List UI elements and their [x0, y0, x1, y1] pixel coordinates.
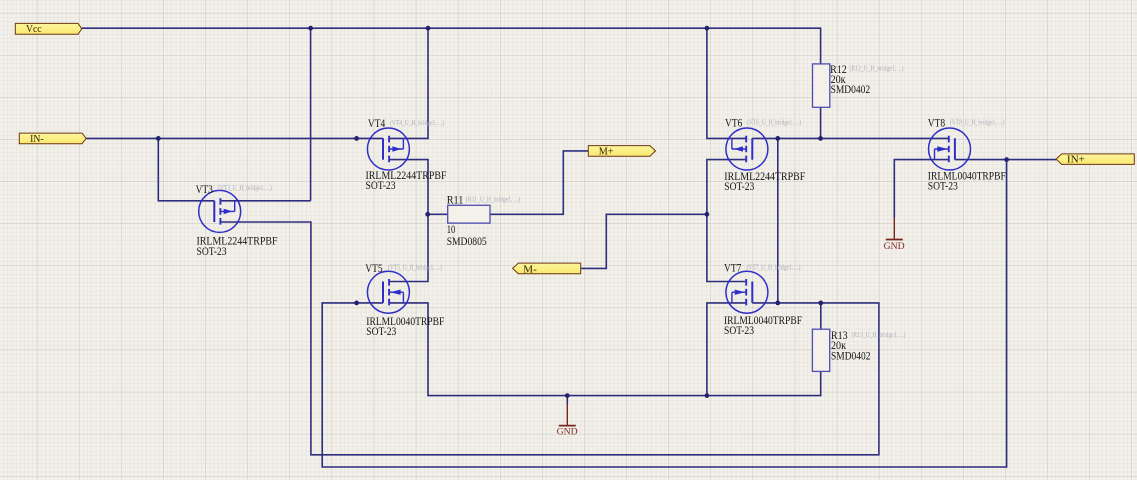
- label VT4 designator: [368, 116, 445, 130]
- svg-text:M-: M-: [523, 264, 537, 275]
- ground GND at VT8: [884, 218, 905, 253]
- svg-text:R11: R11: [447, 193, 464, 207]
- svg-text:GND: GND: [884, 242, 905, 252]
- svg-text:(VT6_U_H_bridge1, ...): (VT6_U_H_bridge1, ...): [747, 119, 802, 127]
- node GND rail VT7 junction: [705, 393, 710, 398]
- port Vcc: [15, 23, 82, 35]
- svg-text:(VT7_U_H_bridge1, ...): (VT7_U_H_bridge1, ...): [747, 264, 802, 272]
- resistor R13: [812, 329, 829, 371]
- svg-text:IN+: IN+: [1067, 154, 1085, 165]
- svg-text:SOT-23: SOT-23: [197, 244, 227, 258]
- svg-text:VT5: VT5: [365, 261, 382, 275]
- svg-text:VT6: VT6: [725, 116, 742, 130]
- svg-text:SOT-23: SOT-23: [724, 323, 754, 337]
- svg-text:VT3: VT3: [196, 182, 213, 196]
- wire Vcc rail with R12 top lead: [82, 28, 821, 64]
- wire Vcc drop to VT3 drain: [310, 28, 312, 201]
- svg-text:SMD0402: SMD0402: [831, 82, 871, 96]
- label VT3 part: [197, 234, 278, 258]
- wire R12 bottom lead: [820, 107, 822, 138]
- node M- junction: [705, 212, 710, 217]
- svg-text:Vcc: Vcc: [26, 24, 42, 35]
- wire VT3 drain stub: [220, 200, 310, 202]
- svg-text:IN-: IN-: [30, 134, 44, 145]
- node IN- at VT4 gate: [354, 136, 359, 141]
- transistor VT4: [367, 128, 409, 170]
- label VT3 designator: [196, 182, 273, 196]
- wire VT6 gate node to VT8 drain: [752, 137, 949, 139]
- node VT5 gate junction: [354, 301, 359, 306]
- label VT7 designator: [724, 261, 801, 275]
- wire VT8 source to GND: [894, 160, 949, 218]
- wire VT6 source to VT7 drain: [707, 160, 746, 282]
- svg-text:SOT-23: SOT-23: [366, 324, 396, 338]
- node gate net at x778 top: [775, 136, 780, 141]
- transistor VT3: [199, 190, 241, 232]
- svg-text:SOT-23: SOT-23: [928, 179, 958, 193]
- wire VT5 gate extension to bottom rail to VT8 gate node: [322, 160, 1006, 467]
- node IN- to VT3 branch: [156, 136, 161, 141]
- label VT5 designator: [365, 261, 442, 275]
- label R11: [447, 193, 521, 249]
- node Vcc-VT4 junction: [426, 26, 431, 31]
- label VT8 designator: [928, 116, 1005, 130]
- svg-text:VT4: VT4: [368, 116, 385, 130]
- wire R13 top lead: [820, 303, 822, 329]
- wire R11 right to M+ port: [490, 151, 588, 214]
- wire M- port to VT6 VT7 midpoint: [581, 214, 707, 268]
- svg-text:(VT3_U_H_bridge1, ...): (VT3_U_H_bridge1, ...): [218, 184, 273, 192]
- wire VT4 source to R11 node to VT5 drain: [389, 160, 428, 282]
- transistor VT6: [726, 128, 768, 170]
- svg-text:SMD0805: SMD0805: [447, 234, 487, 248]
- wire VT3 source to bottom rail to VT7 gate: [220, 222, 879, 455]
- svg-text:M+: M+: [599, 147, 614, 158]
- svg-text:SOT-23: SOT-23: [724, 179, 754, 193]
- svg-text:VT7: VT7: [724, 261, 741, 275]
- node R13 top junction: [818, 301, 823, 306]
- node R12 bottom junction: [818, 136, 823, 141]
- node VT8 gate IN+ junction: [1004, 157, 1009, 162]
- wire R11 left lead: [428, 213, 448, 215]
- port M+: [588, 146, 655, 158]
- wire Vcc drop to VT4 drain: [389, 28, 428, 138]
- label VT7 part: [724, 313, 802, 337]
- node gate net at x778 bottom: [775, 301, 780, 306]
- transistor VT5: [367, 271, 409, 313]
- port M-: [513, 263, 581, 275]
- svg-text:SOT-23: SOT-23: [366, 178, 396, 192]
- svg-text:VT8: VT8: [928, 116, 945, 130]
- wire IN- net to VT4 gate: [86, 137, 383, 139]
- label VT6 designator: [725, 116, 802, 130]
- node Vcc-VT3 junction: [308, 26, 313, 31]
- port IN-: [19, 133, 86, 145]
- wire GND stub center: [566, 396, 568, 404]
- ground GND center: [557, 404, 578, 438]
- svg-text:(R12_U_H_bridge1, ...): (R12_U_H_bridge1, ...): [850, 65, 905, 73]
- label VT4 part: [366, 168, 447, 192]
- wire Vcc drop to VT6 drain: [707, 28, 746, 138]
- port IN+: [1056, 154, 1134, 166]
- wire gate node vertical VT6 to VT7: [777, 138, 779, 303]
- wire VT7 source to GND rail: [707, 303, 746, 396]
- svg-text:(R11_U_H_bridge1, ...): (R11_U_H_bridge1, ...): [466, 195, 521, 203]
- transistor VT7: [726, 271, 768, 313]
- resistor R11: [448, 205, 490, 223]
- resistor R12: [813, 64, 830, 107]
- svg-text:SMD0402: SMD0402: [831, 349, 871, 363]
- node Vcc-VT6 junction: [705, 26, 710, 31]
- label R12: [830, 62, 904, 96]
- label VT8 part: [928, 169, 1006, 193]
- node GND rail center junction: [565, 393, 570, 398]
- svg-text:GND: GND: [557, 428, 578, 438]
- wire IN- branch to VT3 gate: [158, 138, 214, 200]
- label R13: [831, 328, 906, 363]
- svg-text:(VT8_U_H_bridge1, ...): (VT8_U_H_bridge1, ...): [950, 119, 1005, 127]
- wire VT8 gate to IN+ port: [955, 159, 1056, 161]
- svg-text:(R13_U_H_bridge1, ...): (R13_U_H_bridge1, ...): [852, 331, 907, 339]
- node R11 left junction: [425, 212, 430, 217]
- wire VT5 source to GND rail to R13 bottom: [389, 303, 821, 396]
- svg-text:(VT4_U_H_bridge1, ...): (VT4_U_H_bridge1, ...): [390, 119, 445, 127]
- transistor VT8: [929, 128, 971, 170]
- label VT5 part: [366, 314, 444, 338]
- label VT6 part: [724, 169, 805, 193]
- svg-text:(VT5_U_H_bridge1, ...): (VT5_U_H_bridge1, ...): [388, 264, 443, 272]
